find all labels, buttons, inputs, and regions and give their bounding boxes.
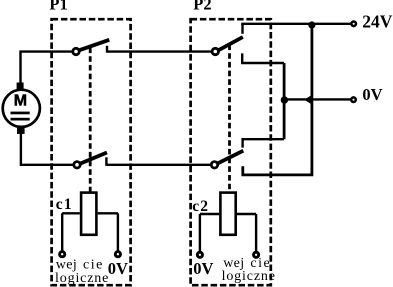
svg-text:logiczne: logiczne (55, 271, 109, 286)
wire: 24V feed to S2b lower throw contact (243, 25, 312, 175)
svg-text:P1: P1 (49, 0, 67, 14)
junction: 0V rail to branch vertical (281, 96, 288, 103)
switch S1b (P1 lower NO contact: pivot, blade, fixed contact) (74, 153, 107, 168)
terminal: P1 0V (115, 252, 120, 257)
motor terminal (bottom) (17, 126, 25, 134)
motor M (3, 90, 40, 127)
relay module boundary box P2 (dashed) (191, 19, 271, 285)
wire: motor bottom terminal to switch S1b pivot (21, 133, 73, 165)
svg-text:c1: c1 (56, 196, 73, 213)
wire: 24V rail (241, 23, 351, 25)
svg-text:24V: 24V (362, 12, 393, 32)
mechanical link (dashed) between P2 contacts and coil c2 (228, 45, 231, 192)
label wej cie (P2 logic input) (223, 256, 271, 271)
terminal: P2 0V (197, 252, 202, 257)
mechanical link (dashed) between P1 contacts and coil c1 (89, 48, 92, 192)
switch S1a (P1 upper NO contact: pivot, blade, fixed contact) (73, 40, 108, 54)
switch S2a (P2 upper changeover contact: pivot, blade, upper throw to 24V, lower throw to 0V) (212, 24, 284, 63)
wire: S1a fixed contact to S2a pivot (107, 50, 212, 52)
label wej cie (P1 logic input) (56, 258, 104, 273)
coil c1 (relay P1 coil with side leads) (62, 193, 118, 251)
relay module boundary box P1 (dashed) (52, 19, 131, 285)
motor terminal (top) (17, 83, 24, 90)
terminal: 0V supply (351, 97, 356, 102)
coil c2 (relay P2 coil with side leads) (200, 193, 256, 252)
svg-text:logiczne: logiczne (222, 269, 276, 284)
wire: 0V branch vertical joining both throw contacts (283, 63, 286, 139)
junction: 24V rail to feed wire (308, 21, 315, 28)
svg-text:M: M (14, 93, 27, 110)
svg-text:c2: c2 (192, 198, 209, 215)
terminal: 24V supply (351, 22, 356, 27)
wire: motor top terminal to switch S1a pivot (21, 52, 73, 84)
svg-text:P2: P2 (193, 0, 211, 13)
switch S2b (P2 lower changeover contact: pivot, blade, upper throw to 0V) (211, 139, 284, 168)
svg-text:0V: 0V (362, 85, 382, 104)
crossover mark on 24V feed wire (304, 96, 311, 104)
wire: S1b fixed contact to S2b pivot (106, 164, 211, 166)
svg-text:0V: 0V (108, 259, 128, 278)
terminal: P1 logic input (60, 252, 65, 257)
svg-text:0V: 0V (193, 259, 213, 278)
wire: 0V rail (284, 98, 351, 100)
terminal: P2 logic input (254, 252, 259, 257)
